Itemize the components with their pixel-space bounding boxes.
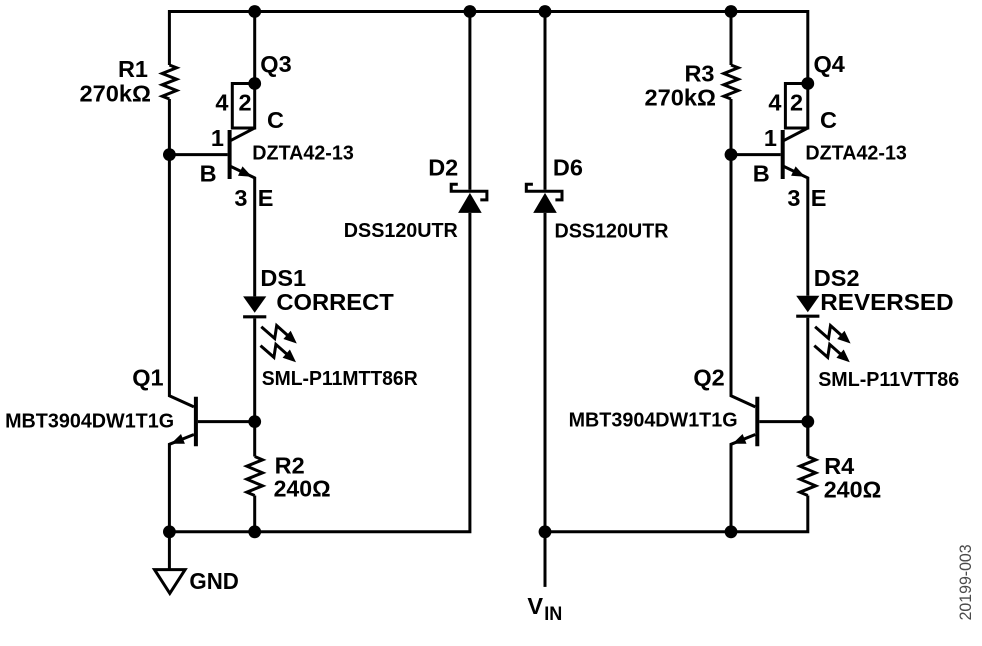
part number DSS120UTR for D6: [555, 220, 670, 242]
node ground rail / R2: [248, 525, 261, 538]
node DS1/R2/Q1 base: [248, 415, 261, 428]
wire left rail / Q1 collector: [169, 99, 194, 407]
label Q3: [260, 51, 291, 77]
svg-text:270kΩ: 270kΩ: [80, 80, 152, 106]
label Q2: [693, 364, 724, 390]
svg-text:3: 3: [234, 185, 247, 211]
label R2: [275, 453, 305, 479]
pin 3 of Q4: [787, 185, 800, 211]
svg-text:B: B: [753, 161, 770, 187]
transistor Q4 collector stub: [784, 128, 808, 141]
node top rail / D6 branch: [539, 5, 552, 18]
svg-text:2: 2: [238, 90, 251, 116]
svg-text:MBT3904DW1T1G: MBT3904DW1T1G: [569, 410, 738, 432]
wire DS2 cathode to node B: [806, 318, 809, 457]
svg-text:DSS120UTR: DSS120UTR: [555, 220, 670, 242]
svg-text:240Ω: 240Ω: [274, 476, 331, 502]
label DS1: [260, 265, 306, 291]
wire R2 to ground rail: [253, 496, 256, 532]
wire R3 to Q4 base node and Q2 collector: [731, 99, 755, 407]
LED DS1 light arrows: [261, 326, 297, 363]
part number SML-P11MTT86R for DS1: [262, 368, 419, 390]
diode D2 schottky cathode bar: [451, 184, 487, 200]
label CORRECT: [276, 289, 394, 315]
pin 1 of Q3: [211, 125, 224, 151]
diode D2 triangle: [458, 193, 482, 213]
wire Q3 base to R1 rail: [169, 153, 227, 156]
svg-text:1: 1: [211, 125, 224, 151]
diode D6 triangle: [533, 193, 557, 213]
svg-text:DZTA42-13: DZTA42-13: [805, 143, 907, 165]
svg-text:D2: D2: [428, 155, 458, 181]
label R1: [118, 56, 148, 82]
wire VIN rail and R4 lower wire: [545, 496, 808, 532]
transistor Q4 base bar: [781, 130, 785, 179]
svg-text:DZTA42-13: DZTA42-13: [252, 143, 353, 165]
svg-text:D6: D6: [553, 155, 583, 181]
wire GND stub: [168, 532, 171, 570]
node VIN rail / Q2 emitter: [725, 525, 738, 538]
LED DS2 cathode bar: [796, 315, 819, 318]
wire Q4 base to R3 rail: [731, 153, 781, 156]
wire D6 cathode from top rail: [544, 12, 547, 190]
terminal C of Q4: [820, 107, 837, 133]
transistor Q4 emitter arrow: [791, 166, 805, 176]
svg-text:Q3: Q3: [260, 51, 291, 77]
node DS2/R4/Q2 base: [801, 415, 814, 428]
wire VIN stub: [544, 532, 547, 587]
transistor Q2 emitter arrow: [733, 434, 747, 444]
value 240&#937; for R2: [274, 476, 331, 502]
svg-text:1: 1: [764, 125, 777, 151]
node top rail / D2 branch: [464, 5, 477, 18]
wire Q1 base to node A: [198, 420, 255, 423]
svg-text:B: B: [200, 161, 217, 187]
resistor R1 body: [162, 65, 176, 99]
label R3: [684, 61, 714, 87]
wire Q2 base to node B: [759, 420, 808, 423]
node B base junction R3/Q4/Q2: [725, 148, 738, 161]
transistor Q1 emitter and wire to ground rail: [169, 435, 194, 532]
part number DZTA42-13 for Q4: [805, 143, 907, 165]
wire ground rail and D2 anode wire: [169, 213, 470, 532]
node top rail / R3 branch: [725, 5, 738, 18]
svg-text:R3: R3: [684, 61, 714, 87]
part number DSS120UTR for D2: [344, 220, 459, 242]
svg-text:270kΩ: 270kΩ: [645, 85, 717, 111]
LED DS2 light arrows: [814, 326, 850, 363]
part number MBT3904DW1T1G for Q1: [5, 410, 174, 432]
resistor R4 body: [800, 457, 816, 496]
svg-text:4: 4: [768, 90, 781, 116]
pin 1 of Q4: [764, 125, 777, 151]
part number SML-P11VTT86 for DS2: [818, 369, 959, 391]
svg-text:C: C: [820, 107, 837, 133]
svg-text:2: 2: [790, 90, 803, 116]
terminal B of Q4: [753, 161, 770, 187]
node A base junction R1/Q3/Q1: [163, 148, 176, 161]
pin 4 of Q4: [768, 90, 781, 116]
svg-text:Q2: Q2: [693, 364, 724, 390]
transistor Q3 emitter arrow: [238, 166, 252, 176]
svg-text:E: E: [811, 185, 827, 211]
svg-text:240Ω: 240Ω: [824, 477, 882, 503]
svg-text:SML-P11VTT86: SML-P11VTT86: [818, 369, 959, 391]
transistor Q3 emitter and wire to DS1: [231, 166, 255, 296]
LED DS1 triangle: [243, 296, 266, 312]
wire R3 feed from top rail: [730, 12, 733, 66]
svg-text:DS1: DS1: [260, 265, 306, 291]
label D2: [428, 155, 458, 181]
transistor Q2 emitter and wire to VIN rail: [731, 435, 755, 532]
resistor R3 body: [724, 65, 738, 99]
svg-text:DS2: DS2: [814, 265, 860, 291]
transistor Q3 collector stub: [231, 128, 255, 141]
terminal C of Q3: [267, 107, 284, 133]
node top rail / Q3 branch: [248, 5, 261, 18]
pin 3 of Q3: [234, 185, 247, 211]
label GND: [189, 568, 239, 594]
svg-text:C: C: [267, 107, 284, 133]
transistor Q1 base bar: [194, 397, 198, 447]
transistor Q4 emitter and wire to DS2: [784, 166, 808, 295]
wire D6 anode to VIN rail: [544, 213, 547, 532]
terminal E of Q4: [811, 185, 827, 211]
transistor Q1 emitter arrow: [171, 434, 185, 444]
ground symbol: [155, 570, 186, 594]
wire top rail with left and right drops: [169, 12, 807, 84]
terminal B of Q3: [200, 161, 217, 187]
label D6: [553, 155, 583, 181]
label Q4: [814, 51, 845, 77]
svg-text:GND: GND: [189, 568, 239, 594]
svg-text:V: V: [527, 593, 543, 619]
LED DS1 cathode bar: [243, 315, 266, 318]
value 270k&#937; for R1: [80, 80, 152, 106]
net label VIN: [527, 593, 562, 625]
node VIN tap: [539, 525, 552, 538]
node ground rail / GND tap: [163, 525, 176, 538]
svg-text:SML-P11MTT86R: SML-P11MTT86R: [262, 368, 419, 390]
terminal E of Q3: [258, 185, 274, 211]
svg-text:R1: R1: [118, 56, 148, 82]
node Q3 collector pins: [248, 77, 261, 90]
svg-text:E: E: [258, 185, 274, 211]
svg-text:IN: IN: [544, 604, 562, 625]
figure number 20199-003: [956, 544, 975, 620]
transistor Q3 collector pin box (pins 2/4): [232, 84, 254, 129]
svg-text:3: 3: [787, 185, 800, 211]
pin 4 of Q3: [215, 90, 228, 116]
wire R4 top to node B: [806, 422, 809, 457]
value 270k&#937; for R3: [645, 85, 717, 111]
svg-text:DSS120UTR: DSS120UTR: [344, 220, 459, 242]
svg-text:REVERSED: REVERSED: [820, 289, 953, 315]
part number MBT3904DW1T1G for Q2: [569, 410, 738, 432]
transistor Q2 base bar: [755, 397, 759, 447]
svg-text:MBT3904DW1T1G: MBT3904DW1T1G: [5, 410, 174, 432]
pin 2 of Q3: [238, 90, 251, 116]
label Q1: [132, 364, 163, 390]
svg-text:20199-003: 20199-003: [956, 544, 975, 620]
svg-text:Q1: Q1: [132, 364, 163, 390]
transistor Q4 collector pin box (pins 2/4): [785, 84, 807, 129]
wire D2 cathode from top rail: [468, 12, 471, 190]
node Q4 collector pins: [801, 77, 814, 90]
value 240&#937; for R4: [824, 477, 882, 503]
wire Q3 feed from top rail: [253, 12, 256, 84]
label REVERSED: [820, 289, 953, 315]
svg-text:Q4: Q4: [814, 51, 845, 77]
pin 2 of Q4: [790, 90, 803, 116]
LED DS2 triangle: [796, 296, 819, 312]
svg-text:CORRECT: CORRECT: [276, 289, 394, 315]
transistor Q3 base bar: [228, 130, 232, 179]
part number DZTA42-13 for Q3: [252, 143, 353, 165]
resistor R2 body: [247, 457, 263, 496]
svg-text:4: 4: [215, 90, 228, 116]
label DS2: [814, 265, 860, 291]
label R4: [824, 453, 854, 479]
svg-text:R4: R4: [824, 453, 854, 479]
wire DS1 cathode to node A: [253, 318, 256, 456]
diode D6 schottky cathode bar: [526, 184, 562, 200]
